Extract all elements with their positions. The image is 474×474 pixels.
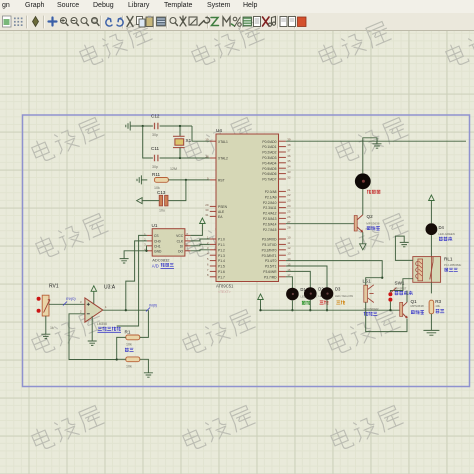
wire DI — [190, 244, 209, 245]
svg-text:22: 22 — [287, 193, 291, 197]
svg-text:P3.0/RXD: P3.0/RXD — [262, 238, 277, 242]
svg-text:P2.0/A8: P2.0/A8 — [265, 190, 277, 194]
power terminal — [137, 198, 143, 204]
svg-text:U4: U4 — [216, 128, 222, 133]
svg-text:P2.3/A11: P2.3/A11 — [263, 206, 276, 210]
wire Q1 collector — [406, 291, 408, 303]
svg-text:R11: R11 — [152, 172, 161, 177]
svg-text:X1: X1 — [186, 138, 192, 143]
svg-text:P1.7: P1.7 — [218, 275, 225, 279]
wire P3.5 to D3 — [286, 266, 327, 288]
wire P3.7 to D1 — [286, 277, 293, 288]
capacitor C12 — [151, 114, 160, 137]
wire P0.0 — [286, 140, 466, 142]
svg-text:26: 26 — [287, 215, 291, 219]
svg-text:32: 32 — [287, 175, 291, 179]
svg-text:34: 34 — [287, 165, 291, 169]
svg-text:DO: DO — [178, 249, 183, 253]
node — [381, 277, 383, 279]
svg-text:C11: C11 — [151, 146, 160, 151]
svg-text:ADC0832: ADC0832 — [152, 257, 170, 262]
svg-text:8: 8 — [207, 273, 209, 277]
LED D1 — [286, 287, 317, 310]
svg-text:PCJ-1B500MH: PCJ-1B500MH — [444, 263, 461, 267]
label A/D converter — [161, 263, 175, 268]
wire CH1 stub — [145, 246, 147, 252]
wire inverting input — [69, 314, 117, 360]
transistor Q2 — [354, 214, 380, 232]
svg-text:LED-YELLOW: LED-YELLOW — [335, 294, 353, 298]
svg-text:10u: 10u — [159, 209, 165, 213]
relay RL1 — [413, 257, 462, 283]
LED D2 — [304, 287, 331, 311]
svg-text:MPS3638: MPS3638 — [366, 221, 380, 225]
ground terminal Q2 — [360, 244, 366, 250]
svg-text:21: 21 — [287, 188, 291, 192]
svg-text:C13: C13 — [157, 190, 166, 195]
svg-text:37: 37 — [287, 148, 291, 152]
potentiometer RV1 — [37, 284, 59, 331]
svg-text:P0.0/AD0: P0.0/AD0 — [262, 140, 276, 144]
svg-text:P3.5/T1: P3.5/T1 — [265, 265, 277, 269]
wire — [130, 125, 153, 127]
wire Q2 base — [286, 223, 354, 225]
wire CLK — [190, 239, 209, 241]
capacitor C13 — [157, 190, 168, 213]
resistor R3 — [429, 299, 441, 314]
wire CS — [117, 235, 147, 326]
resistor R1 — [125, 329, 140, 346]
svg-text:VCC: VCC — [176, 234, 184, 238]
wire relay coil top loop — [395, 236, 413, 260]
svg-text:P2.1/A9: P2.1/A9 — [265, 195, 277, 199]
svg-text:CH0: CH0 — [154, 239, 161, 243]
svg-text:AT89C51: AT89C51 — [216, 284, 234, 289]
svg-text:10k: 10k — [126, 364, 132, 368]
transistor Q1 — [400, 299, 424, 318]
wire sounder top — [366, 278, 383, 286]
svg-text:30p: 30p — [152, 133, 158, 137]
svg-text:36: 36 — [287, 154, 291, 158]
wire Q2 emitter — [362, 232, 364, 244]
svg-text:P3.7/RD: P3.7/RD — [264, 275, 277, 279]
svg-text:P3.2/INT0: P3.2/INT0 — [262, 248, 277, 252]
svg-text:1: 1 — [105, 305, 107, 309]
svg-text:30: 30 — [205, 208, 209, 212]
svg-text:RL1: RL1 — [444, 257, 453, 262]
svg-text:12: 12 — [287, 246, 291, 250]
label D2 chinese — [320, 300, 329, 304]
crystal X1 — [170, 136, 192, 171]
LED D4 — [426, 223, 455, 236]
ground RV1 — [41, 334, 50, 338]
svg-text:DI: DI — [180, 244, 183, 248]
net label RV(0) — [63, 297, 76, 306]
svg-text:LM358: LM358 — [97, 322, 107, 326]
label Q1 chinese — [411, 310, 424, 314]
MCU U4 AT89C51 — [205, 128, 291, 294]
wire — [143, 126, 153, 158]
svg-text:18: 18 — [205, 154, 209, 158]
wire fan top — [363, 138, 377, 174]
svg-text:U3:A: U3:A — [104, 285, 116, 291]
wire P3.6 to D2 — [286, 271, 310, 287]
wire R2 — [117, 359, 149, 373]
svg-text:RST: RST — [218, 179, 225, 183]
label D4 chinese — [439, 237, 452, 241]
ground U1 — [120, 259, 129, 263]
svg-text:P0.4/AD4: P0.4/AD4 — [262, 161, 276, 165]
node — [179, 157, 181, 159]
svg-text:MPS3638: MPS3638 — [411, 304, 425, 308]
wire — [141, 179, 147, 181]
svg-text:P0.6/AD6: P0.6/AD6 — [262, 172, 276, 176]
svg-text:P1.2: P1.2 — [218, 248, 225, 252]
svg-text:P3.4/T0: P3.4/T0 — [265, 259, 277, 263]
svg-text:3: 3 — [144, 242, 146, 246]
wire output — [103, 309, 149, 311]
node — [142, 125, 144, 127]
svg-text:13: 13 — [287, 252, 291, 256]
power opamp — [91, 286, 97, 304]
svg-text:33: 33 — [287, 170, 291, 174]
label resistor R1 — [125, 348, 134, 352]
svg-text:P3.1/TXD: P3.1/TXD — [262, 243, 277, 247]
svg-text:25: 25 — [287, 209, 291, 213]
svg-text:P2.2/A10: P2.2/A10 — [263, 201, 277, 205]
svg-text:10: 10 — [287, 235, 291, 239]
svg-text:P1.3: P1.3 — [218, 254, 225, 258]
svg-text:D3: D3 — [335, 287, 341, 292]
ground opamp — [88, 316, 97, 345]
node — [185, 179, 187, 181]
svg-text:Q2: Q2 — [367, 214, 374, 219]
svg-text:P2.5/A13: P2.5/A13 — [263, 217, 277, 221]
svg-text:GND: GND — [154, 249, 162, 253]
ground — [126, 122, 130, 131]
wire R3 gnd — [430, 314, 432, 331]
resistor R2 — [126, 357, 140, 369]
label relay chinese — [444, 268, 457, 271]
svg-text:PSEN: PSEN — [218, 205, 228, 209]
wire — [168, 180, 186, 201]
wire VCC U1 — [190, 225, 202, 235]
svg-text:P2.6/A14: P2.6/A14 — [263, 222, 277, 226]
svg-text:P1.6: P1.6 — [218, 270, 225, 274]
resistor R11 — [152, 172, 168, 190]
wire RV1 wiper — [49, 303, 85, 305]
label LS1 chinese — [364, 312, 378, 316]
wire — [168, 179, 209, 181]
wire SW1 to bus — [389, 302, 391, 311]
label Q2 chinese — [367, 226, 380, 230]
label SW1 chinese — [395, 291, 413, 295]
ground fan — [373, 144, 382, 148]
label D3 chinese — [336, 300, 345, 304]
motor fan B1 — [355, 173, 371, 189]
svg-text:P3.6/WR: P3.6/WR — [263, 270, 277, 274]
svg-text:ALE: ALE — [218, 210, 225, 214]
svg-text:P2.7/A15: P2.7/A15 — [263, 228, 277, 232]
wire — [160, 126, 210, 141]
op-amp U3:A — [80, 285, 116, 326]
svg-text:IN(0): IN(0) — [149, 304, 158, 308]
svg-text:31: 31 — [205, 213, 209, 217]
svg-text:P0.7/AD7: P0.7/AD7 — [262, 178, 276, 182]
svg-text:XTAL2: XTAL2 — [218, 157, 228, 161]
svg-text:29: 29 — [205, 203, 209, 207]
power bus arrow — [258, 294, 264, 310]
svg-text:CS: CS — [154, 234, 159, 238]
svg-text:SW1: SW1 — [395, 280, 405, 285]
svg-text:P1.1: P1.1 — [218, 243, 225, 247]
svg-text:1k: 1k — [50, 326, 54, 330]
svg-text:P0.5/AD5: P0.5/AD5 — [262, 167, 276, 171]
wire P3.4 to sounder — [286, 261, 382, 278]
wire GND U1 — [124, 251, 147, 259]
svg-text:28: 28 — [287, 226, 291, 230]
svg-text:6: 6 — [207, 262, 209, 266]
label D1 chinese — [302, 301, 311, 305]
svg-text:XTAL1: XTAL1 — [218, 140, 228, 144]
svg-text:P3.3/INT1: P3.3/INT1 — [262, 254, 277, 258]
svg-text:P0.1/AD1: P0.1/AD1 — [262, 145, 276, 149]
label fan chinese — [367, 190, 380, 194]
wire — [142, 200, 159, 202]
wire relay to R3 — [430, 282, 432, 293]
ADC U1 ADC0832 — [144, 223, 190, 262]
svg-text:<TEXT>: <TEXT> — [218, 290, 231, 294]
svg-text:30p: 30p — [152, 165, 158, 169]
capacitor C11 — [151, 146, 160, 169]
node — [125, 309, 127, 311]
svg-text:35: 35 — [287, 159, 291, 163]
svg-text:P1.0: P1.0 — [218, 238, 225, 242]
svg-text:12M: 12M — [170, 167, 177, 171]
svg-text:D4: D4 — [439, 225, 445, 230]
svg-text:7: 7 — [207, 268, 209, 272]
svg-text:11: 11 — [287, 241, 290, 245]
wire fan bottom — [362, 189, 364, 215]
power VCC U1 — [200, 218, 206, 226]
ground R3 — [423, 330, 439, 335]
sheet border — [23, 115, 470, 387]
wire — [160, 157, 210, 159]
svg-text:10k: 10k — [435, 304, 440, 308]
wire relay coil bottom — [390, 279, 413, 292]
power D4 — [429, 195, 435, 223]
net label IN(0) — [146, 304, 158, 312]
svg-text:P2.4/A12: P2.4/A12 — [263, 212, 277, 216]
svg-text:2: 2 — [80, 310, 82, 314]
svg-text:3: 3 — [80, 300, 82, 304]
svg-text:10k: 10k — [126, 343, 132, 347]
svg-text:38: 38 — [287, 143, 291, 147]
svg-text:LS1: LS1 — [363, 279, 372, 284]
ground relay — [400, 242, 409, 246]
svg-text:5: 5 — [207, 257, 209, 261]
label opamp — [98, 327, 122, 333]
switch SW1 — [388, 280, 406, 301]
wire D4 to relay — [430, 235, 432, 257]
LED D3 — [321, 287, 354, 311]
wire sounder bottom — [366, 302, 407, 331]
wire RV1 gnd — [45, 316, 47, 334]
sounder LS1 — [363, 279, 380, 311]
node — [389, 309, 391, 311]
svg-text:19: 19 — [205, 138, 209, 142]
node — [291, 309, 293, 311]
toolbar icons — [3, 16, 307, 28]
svg-text:LED-GREEN: LED-GREEN — [439, 232, 455, 236]
node — [326, 309, 328, 311]
wire LED bus — [261, 309, 400, 311]
label A/D — [152, 264, 159, 269]
svg-text:R1: R1 — [125, 329, 131, 334]
svg-text:24: 24 — [287, 204, 291, 208]
svg-text:CLK: CLK — [177, 239, 184, 243]
node — [116, 358, 118, 360]
svg-text:23: 23 — [287, 199, 291, 203]
svg-text:RV(0): RV(0) — [66, 297, 76, 301]
node — [309, 309, 311, 311]
wire DO — [190, 250, 209, 251]
svg-text:C12: C12 — [151, 114, 160, 119]
ground — [137, 175, 141, 184]
wire R1 — [117, 310, 149, 359]
svg-text:SW-SPST: SW-SPST — [394, 286, 407, 290]
wire CH0 — [126, 241, 147, 310]
svg-text:RV1: RV1 — [49, 284, 59, 290]
svg-text:CH1: CH1 — [154, 244, 161, 248]
label R3 chinese — [436, 309, 445, 313]
svg-text:A/D: A/D — [152, 264, 159, 269]
node — [179, 125, 181, 127]
ground R2 — [144, 373, 153, 377]
svg-text:P1.5: P1.5 — [218, 265, 225, 269]
svg-text:P1.4: P1.4 — [218, 259, 225, 263]
node — [259, 309, 261, 311]
svg-text:P0.2/AD2: P0.2/AD2 — [262, 151, 276, 155]
svg-text:U1: U1 — [152, 223, 158, 228]
svg-text:P0.3/AD3: P0.3/AD3 — [262, 156, 276, 160]
